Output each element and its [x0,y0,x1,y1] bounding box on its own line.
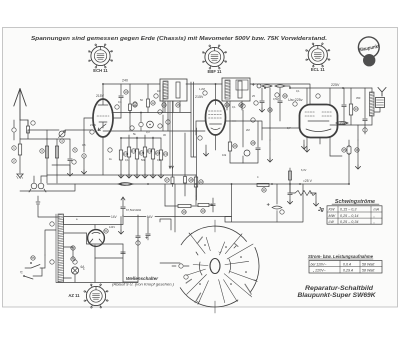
resistor R12 [147,84,149,99]
rectifier AZ11 envelope [88,230,105,247]
wire ECH plate to bus [102,84,104,99]
filter wires [95,244,123,282]
tube ECH11 envelope [93,99,113,137]
svg-text:40: 40 [201,209,205,213]
svg-text:0,29 A: 0,29 A [343,269,354,273]
svg-text:67,5Ω/102Ω: 67,5Ω/102Ω [126,208,141,212]
svg-text:50k: 50k [141,158,146,162]
svg-text:215V: 215V [90,123,96,127]
decoupling cap [364,88,366,118]
svg-text:0,15 – 0,3: 0,15 – 0,3 [340,208,357,212]
resistor R1 [18,144,21,155]
svg-text:LW: LW [329,220,335,224]
svg-text:41: 41 [262,188,266,192]
title block [298,285,376,299]
junction dots upper [120,137,122,139]
table Schwingstroeme [318,199,382,224]
wire top HT bus [103,84,310,104]
resistor R40 [198,203,209,206]
svg-text:30: 30 [283,94,287,98]
capacitor C27 [242,110,244,147]
capacitor to heater bus [121,197,125,206]
coil L1 [46,130,48,183]
resistor 19 [144,135,146,147]
ground left of ECL [301,145,306,149]
resistor 17 [128,135,130,147]
svg-text:mA: mA [374,208,380,212]
svg-text:„ 220V~: „ 220V~ [312,269,326,273]
svg-text:0,3: 0,3 [146,130,150,134]
wire cluster top [121,137,161,139]
svg-text:58 Watt: 58 Watt [362,262,375,266]
svg-text:1M: 1M [157,89,161,93]
resistor R26 [229,101,231,142]
resistor R11 [129,84,131,104]
svg-text:0,5: 0,5 [82,143,86,147]
wire to ECL grid [262,127,299,129]
osc ground [203,152,208,156]
svg-text:Strom- bzw. Leistungsaufnahme: Strom- bzw. Leistungsaufnahme [308,254,374,259]
svg-text:„: „ [373,214,375,218]
volume pot [269,88,271,140]
resistor R39 [178,204,191,207]
svg-text:Spannungen sind gemessen gegen: Spannungen sind gemessen gegen Erde (Cha… [31,36,327,42]
node 2 [12,159,16,163]
cap to ground small [36,196,40,204]
wires [165,205,213,206]
resistor R33 [350,88,352,104]
svg-text:2M: 2M [246,128,250,132]
capacitor C2 [27,126,30,133]
svg-text:0,5M: 0,5M [273,97,279,101]
resistor 21 [160,138,162,150]
svg-text:36: 36 [355,148,359,152]
wire T1 pins down [168,101,173,131]
svg-text:0,1: 0,1 [118,100,122,104]
wire right bus [290,87,372,89]
wire [330,125,358,140]
svg-text:225V: 225V [331,83,340,87]
svg-text:10: 10 [124,90,128,94]
tube base diagram EBF 11 [202,45,226,74]
ground wire [357,140,359,165]
coil L2 [56,139,58,183]
svg-text:0,6 A: 0,6 A [343,262,352,266]
tube ECL11 envelope [300,105,338,138]
ECH11 electrodes [97,115,109,117]
svg-text:12: 12 [151,101,155,105]
svg-text:Ua=225v: Ua=225v [288,98,303,102]
ECL11 electrodes [305,112,332,116]
grid circles [139,122,143,126]
tone cap [348,140,350,147]
svg-text:0,2: 0,2 [157,158,161,162]
ground [17,174,23,178]
wire antenna down [19,120,21,144]
wire drop cap [147,217,149,234]
rectifier cathode wire [87,233,124,258]
svg-text:MW: MW [329,214,336,218]
capacitor C28 [257,121,259,147]
speaker [378,88,386,97]
TA jack left [31,183,37,189]
resistor R22 [195,175,197,177]
svg-text:bei 110V~: bei 110V~ [311,262,327,266]
lamp shunt cap [261,88,263,100]
wire join dots [129,112,131,114]
svg-text:26: 26 [233,144,237,148]
svg-text:55: 55 [31,256,35,260]
svg-text:14V: 14V [111,215,118,219]
wires T1 down [165,101,180,112]
svg-text:ECH 11: ECH 11 [93,68,108,73]
wire jack feeds [34,176,47,180]
wire EBF right [226,120,237,122]
table Leistungsaufnahme [308,254,382,273]
svg-text:35: 35 [342,148,346,152]
resistor R41 [257,183,269,186]
svg-text:28: 28 [251,141,255,145]
svg-text:10k: 10k [222,153,227,157]
svg-text:0,7: 0,7 [287,126,291,130]
cathode resistor [330,155,342,157]
dial drive hub [210,259,220,274]
svg-text:≈: ≈ [20,270,23,276]
filter cap [121,252,125,254]
svg-text:„: „ [373,220,375,224]
svg-text:Jg: Jg [318,207,324,213]
EBF11 electrodes [209,111,223,118]
oscillator coil verticals [185,128,197,200]
svg-text:215V: 215V [96,94,105,98]
wire ECL top right [329,88,331,104]
tube base diagram ECL 11 [306,43,330,72]
electrolytic C43 [276,184,278,204]
svg-text:ECL 11: ECL 11 [311,67,326,72]
svg-text:15: 15 [176,103,180,107]
osc triode circle [147,121,154,128]
svg-text:0,1: 0,1 [125,158,129,162]
wire bottom rail [56,282,138,284]
power transformer winding [58,214,64,282]
wire heater bus [64,216,232,218]
wire ECL top left [306,88,308,104]
output transformer primary [370,92,375,116]
wire [19,155,21,173]
svg-text:0,25 – 0,14: 0,25 – 0,14 [340,214,358,218]
svg-text:240: 240 [122,79,128,83]
wire top join [47,138,70,140]
svg-text:1,2M: 1,2M [199,87,205,91]
capacitor C38 [212,198,214,203]
wires to dial area [160,219,171,230]
dial arc bottom [180,288,238,307]
wire y130 left [28,129,93,131]
padder trimmer [172,168,174,187]
wire y112 [112,112,191,114]
wire [20,120,28,126]
left column refs [12,128,16,132]
wire B+ vert [343,88,345,104]
electrolytic pair right [137,215,139,236]
svg-text:KW: KW [329,208,335,212]
IF can shield [191,82,196,157]
antenna [14,89,26,121]
dial arc top [181,226,246,245]
dial radial spokes [187,220,258,313]
scattered circled refs upper [115,105,119,109]
wire AVC bus [47,174,196,176]
resistor R42 [289,168,291,184]
heater zigzag [295,191,316,196]
dial small parts [179,264,183,268]
svg-text:Wellenschalter: Wellenschalter [126,276,158,281]
transformer mid wires [64,233,87,247]
wire [289,183,291,185]
coupling coil [118,183,133,186]
wire EBF left grid [196,121,206,135]
svg-text:58 Watt: 58 Watt [362,269,375,273]
dial inner arc [229,259,231,273]
TA jack right [38,183,44,189]
svg-text:17: 17 [165,178,169,182]
dial lamp series [252,83,254,85]
svg-text:350: 350 [356,96,361,100]
resistor 20 [152,137,154,149]
capacitor C5 [69,139,71,158]
wire EBF top [215,84,217,100]
svg-text:124V: 124V [109,225,115,229]
resistor 18 [136,137,138,149]
bias cap to ground [289,184,291,192]
wire ECH right [113,117,121,119]
dial arc right [250,247,259,292]
svg-text:51: 51 [104,229,108,233]
svg-text:33: 33 [354,107,358,111]
tube base diagram ECH 11 [88,44,112,73]
pilot lamp [71,267,78,274]
mains switch [30,262,32,264]
svg-text:AZ 11: AZ 11 [68,293,80,298]
dial tick labels [197,236,203,243]
wire grid coupling [232,121,262,140]
svg-text:29: 29 [268,108,272,112]
wire horiz antenna coupling [20,133,47,139]
IF transformer T2 [222,78,250,101]
ground [267,158,272,162]
svg-text:21: 21 [164,152,168,156]
wire up from switch [45,230,56,255]
wire x28 [27,120,29,133]
wire grid bus y130 [103,130,205,132]
svg-text:22: 22 [199,180,203,184]
svg-text:11: 11 [133,103,136,107]
wire y165 [52,165,70,172]
svg-text:0,1: 0,1 [296,89,300,93]
resistor 16 [120,138,122,150]
wire ECL bottom [306,138,308,149]
svg-text:0,1: 0,1 [232,105,236,109]
Blaupunkt logo [358,37,380,67]
chassis box [225,184,303,222]
capacitor C30 [279,88,281,100]
svg-text:≈25 V: ≈25 V [303,179,313,183]
transformer top wires [64,215,124,229]
wire ECH cathode down [102,137,104,175]
wire lower bus left [20,184,75,191]
tube base diagram AZ 11 [68,284,108,308]
IF shield pair lower [169,101,174,169]
wire left entry [160,262,180,264]
svg-text:0,25 – 0,34: 0,25 – 0,34 [340,220,358,224]
heater taps [71,246,75,250]
wire EBF bottom [215,135,217,150]
grid cap wire [84,118,93,152]
svg-text:Blaupunkt-Super SW69K: Blaupunkt-Super SW69K [298,292,376,299]
svg-text:215V: 215V [195,95,204,99]
IF transformer T1 [160,79,187,101]
trimmer [59,131,65,137]
speaker wires [374,108,380,113]
svg-text:EBF 11: EBF 11 [208,69,223,74]
svg-text:18: 18 [189,178,193,182]
tube EBF11 envelope [206,100,226,135]
svg-text:(Ablauf 9 U. (von Knopf gesehe: (Ablauf 9 U. (von Knopf gesehen.) [112,283,174,287]
wire drop left [120,217,122,231]
wire main mid bus [47,183,349,185]
capacitor C10 [120,84,122,95]
svg-text:39: 39 [182,210,186,214]
wire vertical into dial [174,184,176,232]
svg-text:6,3V: 6,3V [301,168,307,172]
